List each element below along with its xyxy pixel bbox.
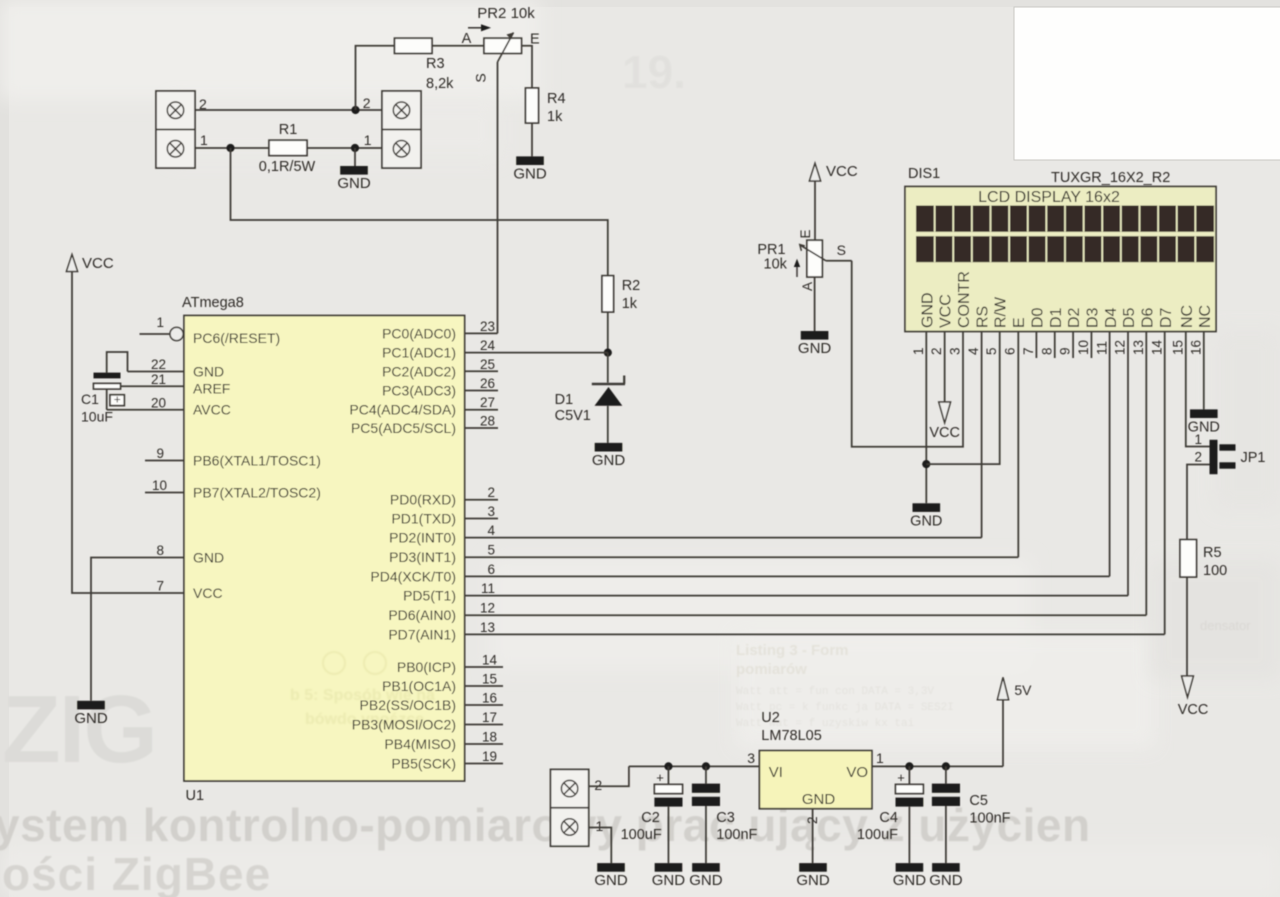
svg-text:2: 2 bbox=[363, 95, 371, 111]
svg-text:PB3(MOSI/OC2): PB3(MOSI/OC2) bbox=[352, 717, 456, 733]
power VCC (down arrow bottom right) bbox=[1182, 676, 1194, 697]
svg-text:PB0(ICP): PB0(ICP) bbox=[397, 659, 456, 675]
capacitor C5 bbox=[945, 766, 947, 783]
svg-text:A: A bbox=[462, 31, 472, 47]
svg-text:D1: D1 bbox=[1048, 307, 1065, 328]
svg-text:23: 23 bbox=[480, 319, 495, 334]
wire up to LCD column bbox=[1164, 332, 1166, 635]
potentiometer PR2 body bbox=[484, 38, 522, 53]
LCD pin9 stub bbox=[1072, 332, 1074, 359]
svg-text:R3: R3 bbox=[426, 56, 445, 72]
wire from lamp1 down and right to R2 bbox=[231, 148, 608, 276]
capacitor C4 (electrolytic) bbox=[908, 766, 910, 784]
svg-text:PD3(INT1): PD3(INT1) bbox=[389, 549, 456, 565]
svg-text:R1: R1 bbox=[279, 122, 298, 138]
U1 pin 1 PC6(/RESET) bbox=[140, 333, 171, 335]
svg-text:10: 10 bbox=[1076, 340, 1091, 355]
PR1 wiper diagonal bbox=[801, 245, 827, 260]
svg-text:GND: GND bbox=[592, 452, 626, 469]
wire net lamp1 left bbox=[195, 147, 269, 149]
svg-text:D6: D6 bbox=[1140, 307, 1157, 328]
svg-text:13: 13 bbox=[1131, 340, 1146, 355]
svg-text:R/W: R/W bbox=[993, 296, 1010, 328]
svg-text:9: 9 bbox=[156, 446, 164, 461]
svg-text:PD5(T1): PD5(T1) bbox=[403, 588, 456, 604]
svg-text:U2: U2 bbox=[761, 710, 780, 726]
LCD pin10 stub bbox=[1090, 332, 1092, 359]
arrow marker near A terminal bbox=[468, 27, 481, 29]
wire up to LCD column bbox=[1017, 332, 1019, 558]
power 5V arrow bbox=[997, 677, 1008, 700]
svg-text:PD0(RXD): PD0(RXD) bbox=[390, 492, 456, 508]
svg-text:C3: C3 bbox=[716, 810, 735, 826]
svg-text:DIS1: DIS1 bbox=[908, 166, 940, 182]
LCD pin1 GND wire bbox=[925, 332, 927, 504]
svg-text:11: 11 bbox=[481, 581, 495, 596]
svg-text:C4: C4 bbox=[879, 810, 898, 826]
svg-text:6: 6 bbox=[487, 562, 495, 577]
svg-text:GND: GND bbox=[513, 166, 547, 183]
svg-text:100nF: 100nF bbox=[969, 811, 1010, 827]
svg-text:27: 27 bbox=[480, 395, 495, 410]
svg-text:7: 7 bbox=[1021, 347, 1036, 355]
junction node ADC1 bbox=[604, 349, 612, 357]
svg-text:VI: VI bbox=[769, 764, 783, 781]
microcontroller U1 ATmega8 body bbox=[184, 316, 465, 782]
zener diode D1 bbox=[592, 383, 625, 386]
svg-text:VCC: VCC bbox=[938, 294, 955, 328]
svg-text:C5: C5 bbox=[969, 793, 988, 809]
svg-text:ZIG: ZIG bbox=[2, 676, 156, 783]
LCD pin7 stub bbox=[1035, 332, 1037, 359]
svg-text:D4: D4 bbox=[1103, 307, 1120, 328]
svg-text:PD7(AIN1): PD7(AIN1) bbox=[388, 626, 456, 642]
ground under X3 pin1 bbox=[597, 863, 625, 872]
svg-text:E: E bbox=[798, 229, 813, 238]
svg-text:Watt att = fun con DATA = 3,3: Watt att = fun con DATA = 3,3V bbox=[736, 686, 934, 698]
svg-text:5: 5 bbox=[984, 347, 999, 355]
U1 pin 20 AVCC wire bbox=[107, 409, 184, 411]
svg-text:PB4(MISO): PB4(MISO) bbox=[384, 736, 456, 752]
connector X2 (right terminal block) bbox=[382, 91, 421, 168]
svg-text:PR2 10k: PR2 10k bbox=[477, 5, 535, 22]
wire D1 to ground bbox=[607, 406, 609, 443]
svg-text:VCC: VCC bbox=[193, 585, 223, 601]
ground bottom-left bbox=[77, 701, 105, 710]
svg-text:100nF: 100nF bbox=[716, 827, 757, 843]
ground under U2 bbox=[799, 863, 827, 872]
wire up to LCD column bbox=[1145, 332, 1147, 616]
ground under C4 bbox=[896, 863, 924, 872]
svg-text:GND: GND bbox=[802, 791, 836, 808]
ground under PR1 bbox=[801, 331, 829, 340]
svg-text:24: 24 bbox=[480, 338, 496, 353]
svg-text:11: 11 bbox=[1094, 341, 1109, 355]
wire VCC to U1 pin7 bbox=[72, 272, 184, 594]
svg-text:8: 8 bbox=[156, 543, 164, 558]
svg-text:26: 26 bbox=[480, 376, 495, 391]
svg-text:10: 10 bbox=[152, 478, 167, 493]
U1 pin 9 stub bbox=[145, 460, 184, 462]
ground under D1 bbox=[595, 443, 623, 452]
resistor R1 bbox=[269, 140, 307, 155]
svg-text:densator: densator bbox=[1200, 618, 1251, 633]
big ghost headline bbox=[0, 676, 1091, 897]
power VCC above PR1 bbox=[809, 163, 820, 181]
svg-text:LCD DISPLAY 16x2: LCD DISPLAY 16x2 bbox=[978, 189, 1120, 206]
svg-text:PB6(XTAL1/TOSC1): PB6(XTAL1/TOSC1) bbox=[193, 453, 321, 469]
power VCC (top-left) bbox=[66, 255, 77, 272]
svg-text:RS: RS bbox=[974, 306, 991, 328]
svg-text:GND: GND bbox=[193, 550, 224, 566]
U2 pin1 output wire to 5V bbox=[872, 765, 1003, 767]
wire X3 pin2 to U2 input bbox=[589, 766, 629, 786]
svg-text:2: 2 bbox=[929, 347, 944, 355]
ground under C3 bbox=[692, 863, 720, 872]
svg-text:GND: GND bbox=[798, 340, 832, 357]
svg-text:16: 16 bbox=[482, 691, 497, 706]
svg-text:D2: D2 bbox=[1066, 307, 1083, 328]
ground under LCD pin1 bbox=[913, 503, 941, 512]
svg-text:GND: GND bbox=[893, 872, 927, 889]
junction on net lamp2 bbox=[351, 106, 359, 114]
svg-text:10k: 10k bbox=[764, 257, 788, 273]
svg-text:19: 19 bbox=[482, 749, 497, 764]
svg-text:5V: 5V bbox=[1014, 682, 1032, 698]
svg-text:1: 1 bbox=[364, 132, 372, 148]
svg-text:S: S bbox=[837, 242, 846, 258]
svg-text:R4: R4 bbox=[547, 91, 566, 107]
connector X3 (power input block) bbox=[551, 769, 589, 846]
svg-text:1: 1 bbox=[200, 132, 208, 148]
svg-text:E: E bbox=[1011, 317, 1028, 328]
svg-text:C1: C1 bbox=[81, 391, 99, 407]
wire R3 to PR2 bbox=[432, 45, 484, 47]
svg-text:25: 25 bbox=[480, 357, 495, 372]
wire up to LCD column bbox=[981, 332, 983, 538]
svg-text:PB5(SCK): PB5(SCK) bbox=[391, 756, 456, 772]
svg-text:PC2(ADC2): PC2(ADC2) bbox=[382, 363, 456, 379]
wire R2 to junction bbox=[607, 312, 609, 353]
wire junction to D1 bbox=[607, 353, 609, 383]
svg-text:8: 8 bbox=[1039, 347, 1054, 355]
svg-text:6: 6 bbox=[1003, 347, 1018, 355]
svg-text:D5: D5 bbox=[1121, 307, 1138, 328]
junction node lamp1 bbox=[226, 144, 234, 152]
svg-text:PD1(TXD): PD1(TXD) bbox=[391, 511, 456, 527]
svg-text:1: 1 bbox=[911, 347, 926, 355]
svg-text:10uF: 10uF bbox=[81, 409, 113, 425]
junction C3 node bbox=[702, 762, 710, 770]
wire PR2 E to R4 bbox=[522, 46, 533, 88]
U1 pin 10 stub bbox=[145, 492, 184, 494]
svg-text:7: 7 bbox=[156, 579, 164, 594]
svg-text:CONTR: CONTR bbox=[956, 271, 973, 328]
svg-text:19.: 19. bbox=[622, 46, 686, 98]
svg-text:PB1(OC1A): PB1(OC1A) bbox=[382, 678, 456, 694]
svg-text:PB2(SS/OC1B): PB2(SS/OC1B) bbox=[360, 697, 456, 713]
svg-text:17: 17 bbox=[482, 710, 497, 725]
PR1 arrow marker bbox=[796, 264, 798, 278]
svg-text:1k: 1k bbox=[547, 109, 563, 125]
svg-text:S: S bbox=[473, 73, 489, 82]
svg-text:5: 5 bbox=[487, 543, 495, 558]
LCD pin16 wire to ground bbox=[1203, 332, 1205, 410]
wire R5 to VCC bbox=[1186, 577, 1188, 676]
svg-text:12: 12 bbox=[1113, 340, 1128, 355]
wire PR1 to ground bbox=[814, 277, 816, 331]
U2 pin2 gnd wire bbox=[812, 809, 814, 863]
svg-text:100uF: 100uF bbox=[857, 827, 898, 843]
svg-text:LM78L05: LM78L05 bbox=[761, 728, 821, 744]
svg-text:PC6(/RESET): PC6(/RESET) bbox=[193, 330, 280, 346]
C1 plus box bbox=[106, 389, 108, 410]
svg-text:ystem kontrolno-pomiarowy prac: ystem kontrolno-pomiarowy prac.ujący z u… bbox=[0, 799, 1091, 851]
svg-text:GND: GND bbox=[74, 710, 108, 727]
svg-text:1k: 1k bbox=[622, 296, 638, 312]
svg-text:8,2k: 8,2k bbox=[426, 76, 454, 92]
LCD pin8 stub bbox=[1054, 332, 1056, 359]
U1 pin 8 GND wire to ground bbox=[91, 558, 184, 701]
LCD cell separators bbox=[934, 206, 936, 232]
junction at X2 pin1 bbox=[351, 144, 359, 152]
junction C2 node bbox=[664, 762, 672, 770]
U2 pin3 input wire bbox=[629, 765, 760, 767]
svg-text:GND: GND bbox=[594, 872, 628, 889]
svg-text:28: 28 bbox=[480, 414, 495, 429]
wire R4 to ground bbox=[531, 123, 533, 156]
svg-text:D3: D3 bbox=[1084, 307, 1101, 328]
svg-text:ości ZigBee: ości ZigBee bbox=[2, 848, 271, 897]
ground under X2 pin1 bbox=[354, 148, 356, 166]
LCD pin5 R/W wire to gnd junction bbox=[926, 332, 999, 465]
svg-text:GND: GND bbox=[337, 175, 371, 192]
junction C4 node bbox=[905, 762, 913, 770]
svg-text:GND: GND bbox=[910, 513, 942, 529]
svg-text:9: 9 bbox=[1058, 347, 1073, 355]
svg-text:1: 1 bbox=[156, 315, 164, 330]
svg-text:2: 2 bbox=[594, 777, 602, 793]
PR2 wiper diagonal bbox=[498, 33, 514, 63]
svg-text:100: 100 bbox=[1203, 563, 1227, 579]
ground under R4 bbox=[516, 156, 544, 165]
svg-text:0,1R/5W: 0,1R/5W bbox=[259, 159, 316, 175]
faint bleed inside U1 bbox=[290, 652, 435, 728]
wire up to LCD column bbox=[1109, 332, 1111, 577]
svg-text:2: 2 bbox=[805, 816, 820, 824]
svg-text:100uF: 100uF bbox=[621, 827, 662, 843]
svg-text:VCC: VCC bbox=[1178, 702, 1209, 718]
LCD character cells row 1 bbox=[916, 206, 1214, 232]
wire JP1 pin2 to R5 bbox=[1187, 465, 1210, 540]
U1 pin 22 GND wire bbox=[128, 371, 185, 373]
svg-text:12: 12 bbox=[480, 601, 495, 616]
wire X3 pin1 to ground bbox=[589, 828, 612, 864]
resistor R4 bbox=[526, 88, 539, 123]
wire to R3 bbox=[356, 46, 395, 110]
svg-text:16: 16 bbox=[1188, 340, 1203, 355]
ghost print bleed-through (decorative) bbox=[622, 46, 1251, 730]
svg-text:PC1(ADC1): PC1(ADC1) bbox=[382, 345, 456, 361]
svg-text:2: 2 bbox=[1194, 450, 1202, 465]
svg-text:3: 3 bbox=[487, 504, 495, 519]
white overlay box top right bbox=[1014, 7, 1280, 160]
svg-text:GND: GND bbox=[796, 872, 830, 889]
svg-text:GND: GND bbox=[652, 872, 686, 889]
svg-text:VCC: VCC bbox=[929, 425, 960, 441]
svg-text:PC4(ADC4/SDA): PC4(ADC4/SDA) bbox=[349, 402, 456, 418]
svg-text:+: + bbox=[656, 770, 664, 785]
ground under C2 bbox=[655, 863, 683, 872]
svg-text:PC5(ADC5/SCL): PC5(ADC5/SCL) bbox=[351, 420, 456, 436]
LCD character cells row 2 bbox=[916, 236, 1214, 262]
svg-text:VCC: VCC bbox=[826, 163, 858, 180]
svg-text:14: 14 bbox=[1149, 339, 1164, 355]
resistor R5 bbox=[1180, 540, 1197, 577]
svg-text:TUXGR_16X2_R2: TUXGR_16X2_R2 bbox=[1051, 170, 1170, 186]
svg-text:PD6(AIN0): PD6(AIN0) bbox=[388, 607, 456, 623]
wire PR2 wiper S down to U1 pin23 bbox=[497, 62, 499, 333]
svg-text:D7: D7 bbox=[1158, 307, 1175, 328]
junction C5 node bbox=[942, 762, 950, 770]
jumper JP1 bbox=[1210, 440, 1218, 474]
connector X1 (left terminal block) bbox=[156, 91, 195, 168]
svg-text:VCC: VCC bbox=[82, 255, 114, 272]
potentiometer PR1 body bbox=[807, 240, 822, 277]
svg-text:GND: GND bbox=[193, 364, 224, 380]
svg-text:21: 21 bbox=[151, 372, 166, 387]
svg-text:20: 20 bbox=[151, 395, 166, 410]
svg-text:GND: GND bbox=[689, 872, 723, 889]
svg-text:22: 22 bbox=[151, 357, 166, 372]
capacitor C3 bbox=[705, 766, 707, 783]
svg-text:15: 15 bbox=[1170, 340, 1185, 355]
svg-text:VO: VO bbox=[846, 764, 868, 781]
svg-text:pomiarów: pomiarów bbox=[736, 661, 807, 678]
svg-text:+: + bbox=[114, 392, 121, 406]
svg-text:GND: GND bbox=[929, 872, 963, 889]
svg-text:3: 3 bbox=[747, 750, 755, 766]
junction LCD gnd node bbox=[922, 460, 930, 468]
svg-text:1: 1 bbox=[596, 818, 604, 834]
svg-text:4: 4 bbox=[966, 347, 981, 355]
power VCC (down) at LCD pin2 bbox=[939, 402, 951, 423]
svg-text:D1: D1 bbox=[555, 392, 574, 408]
svg-text:13: 13 bbox=[480, 620, 495, 635]
svg-text:D0: D0 bbox=[1029, 307, 1046, 328]
wire net lamp2 bbox=[195, 109, 382, 111]
wire R1 to X2 bbox=[307, 147, 382, 149]
svg-text:A: A bbox=[800, 282, 815, 291]
LCD pin15 wire to JP1 bbox=[1186, 332, 1210, 447]
svg-text:PD4(XCK/T0): PD4(XCK/T0) bbox=[370, 568, 456, 584]
U1 pin 21 AREF wire bbox=[121, 385, 185, 387]
svg-text:GND: GND bbox=[1188, 420, 1220, 436]
svg-text:14: 14 bbox=[482, 653, 498, 668]
wire PR1 wiper S bbox=[826, 260, 852, 262]
LCD pin2 VCC wire bbox=[944, 332, 946, 403]
svg-text:AVCC: AVCC bbox=[193, 402, 231, 418]
svg-text:3: 3 bbox=[948, 347, 963, 355]
wire up to LCD column bbox=[1127, 332, 1129, 596]
svg-text:Listing 3 - Form: Listing 3 - Form bbox=[736, 642, 849, 659]
svg-text:ATmega8: ATmega8 bbox=[182, 295, 244, 311]
svg-text:JP1: JP1 bbox=[1241, 450, 1266, 466]
resistor R2 bbox=[602, 276, 614, 312]
resistor R3 bbox=[395, 38, 433, 53]
svg-text:NC: NC bbox=[1197, 305, 1214, 328]
wire up to 5V arrow bbox=[1002, 700, 1004, 767]
svg-text:PD2(INT0): PD2(INT0) bbox=[389, 530, 456, 546]
LCD pin3 CONTR wire to PR1 wiper bbox=[852, 261, 963, 447]
svg-text:C2: C2 bbox=[641, 810, 660, 826]
svg-text:U1: U1 bbox=[186, 788, 205, 804]
ground under C5 bbox=[932, 863, 960, 872]
svg-text:AREF: AREF bbox=[193, 381, 230, 397]
svg-text:2: 2 bbox=[487, 485, 495, 500]
capacitor C1 (electrolytic) bbox=[107, 352, 128, 373]
svg-text:R5: R5 bbox=[1203, 545, 1222, 561]
svg-text:R2: R2 bbox=[622, 278, 641, 294]
svg-text:NC: NC bbox=[1179, 305, 1196, 328]
svg-text:1: 1 bbox=[876, 750, 884, 766]
capacitor C2 (electrolytic) bbox=[667, 766, 669, 784]
svg-text:PC0(ADC0): PC0(ADC0) bbox=[382, 325, 456, 341]
svg-text:15: 15 bbox=[482, 672, 497, 687]
svg-text:C5V1: C5V1 bbox=[555, 408, 591, 424]
svg-text:4: 4 bbox=[487, 523, 495, 538]
svg-text:PB7(XTAL2/TOSC2): PB7(XTAL2/TOSC2) bbox=[193, 485, 321, 501]
ground under LCD pin16 bbox=[1190, 409, 1218, 418]
svg-text:18: 18 bbox=[482, 730, 497, 745]
svg-text:GND: GND bbox=[919, 292, 936, 328]
svg-text:PC3(ADC3): PC3(ADC3) bbox=[382, 383, 456, 399]
svg-text:+: + bbox=[897, 770, 905, 785]
